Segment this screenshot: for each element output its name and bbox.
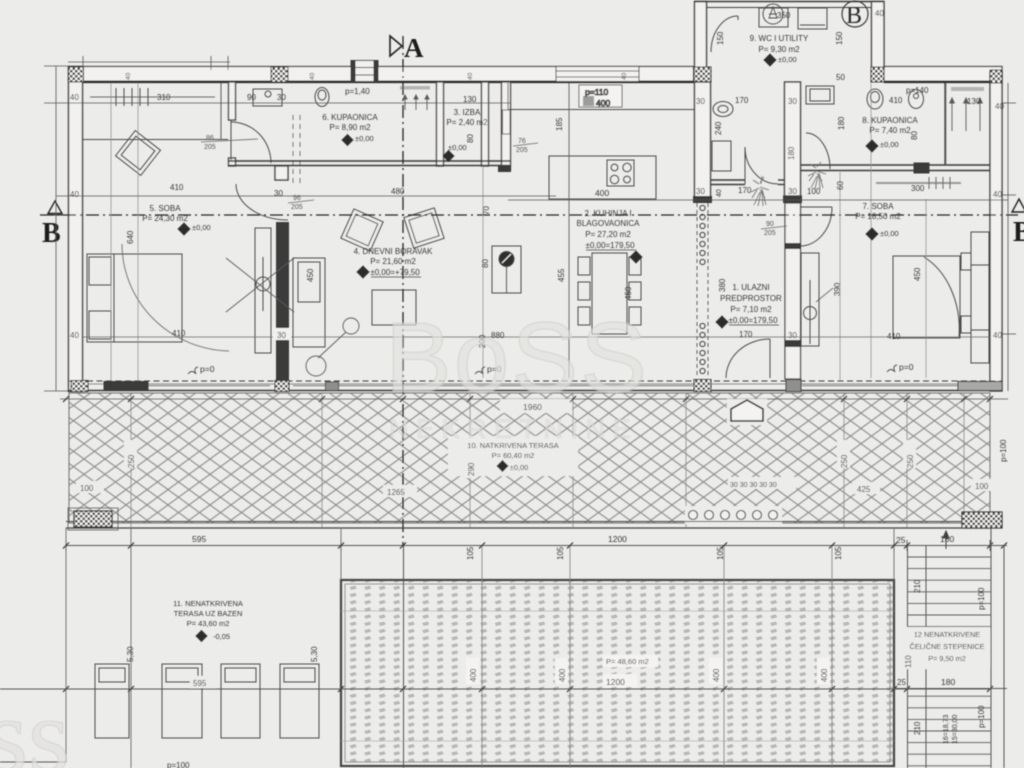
grid line x483 living: [482, 166, 484, 378]
svg-text:100: 100: [807, 187, 821, 196]
svg-text:90: 90: [247, 93, 256, 102]
plot corner lines bottom-left: [0, 761, 66, 763]
radiator arrows vent room right: [946, 83, 984, 165]
bed room7: [893, 232, 989, 363]
entrance arrow symbol on terrace: [727, 399, 767, 425]
svg-text:P= 27,20 m2: P= 27,20 m2: [585, 230, 631, 239]
svg-text:±0,00=179,50: ±0,00=179,50: [728, 316, 778, 325]
svg-text:P= 7,40 m2: P= 7,40 m2: [869, 126, 911, 135]
svg-text:390: 390: [833, 282, 842, 296]
svg-text:±0,00: ±0,00: [448, 143, 467, 152]
svg-text:P= 43,60 m2: P= 43,60 m2: [187, 619, 230, 628]
svg-text:40: 40: [993, 331, 1002, 340]
svg-text:410: 410: [172, 329, 186, 338]
svg-text:100: 100: [975, 482, 989, 491]
closet wall cap: [498, 165, 511, 172]
pier bottom wall mid: [275, 381, 289, 392]
tall cabinet room5 right: [255, 228, 271, 353]
wardrobe strip room5 top: [83, 83, 228, 140]
svg-text:400: 400: [596, 98, 610, 108]
svg-text:205: 205: [516, 147, 528, 154]
svg-text:1200: 1200: [606, 677, 625, 687]
svg-text:40: 40: [993, 190, 1002, 199]
grid line x569 kitchen: [568, 83, 570, 378]
dimension row y199 right: [508, 199, 1008, 201]
svg-text:±0,00=+79,50: ±0,00=+79,50: [370, 268, 420, 277]
watermark BoSS center: [385, 302, 647, 444]
rotated dim texts house: [126, 31, 922, 348]
wall W8 bath8 bottom: [801, 163, 990, 173]
svg-text:40: 40: [467, 72, 474, 80]
dimension row y545: [66, 540, 1007, 551]
svg-text:80: 80: [910, 131, 919, 140]
svg-text:310: 310: [157, 93, 171, 102]
outer wall left: [69, 67, 83, 392]
circle device 350: [763, 4, 783, 24]
svg-text:±0,00: ±0,00: [778, 55, 797, 64]
floor lamp living: [306, 318, 359, 376]
svg-text:30: 30: [788, 331, 797, 340]
wardrobe unit room7: [801, 253, 833, 346]
svg-text:1200: 1200: [608, 534, 627, 544]
svg-text:250: 250: [127, 454, 136, 468]
svg-text:12 NENATKRIVENE: 12 NENATKRIVENE: [914, 630, 980, 639]
wall W5 kitchen right: [694, 82, 712, 203]
svg-text:595: 595: [193, 679, 207, 688]
right dimension line: [1002, 83, 1016, 391]
terrace bottom edge: [66, 522, 990, 529]
svg-text:5. SOBA: 5. SOBA: [149, 204, 181, 213]
svg-text:11. NENATKRIVENA: 11. NENATKRIVENA: [173, 599, 243, 608]
stairs labels: [897, 579, 990, 744]
svg-text:86: 86: [206, 135, 214, 142]
bathroom8 door arc: [806, 133, 830, 169]
svg-text:30 30 30 30 30: 30 30 30 30 30: [730, 482, 777, 489]
svg-text:±0,00: ±0,00: [355, 134, 374, 143]
door post between hall and room5: [275, 166, 288, 180]
dining table: [578, 253, 641, 334]
svg-text:170: 170: [738, 186, 752, 195]
pool internal grid lines: [341, 545, 894, 768]
stair treads: [908, 557, 992, 766]
wall W11 room5/living (solid): [276, 222, 289, 381]
wall room1/room7 lower: [785, 203, 801, 379]
svg-text:30: 30: [696, 97, 705, 106]
svg-text:60: 60: [836, 181, 845, 190]
lounger dims: [126, 646, 319, 768]
svg-text:80: 80: [481, 259, 490, 268]
svg-text:130: 130: [967, 97, 981, 106]
kitchen counter: [508, 83, 694, 110]
dots partition at kitchen/entry: [697, 203, 708, 378]
svg-text:450: 450: [913, 267, 922, 281]
room5 hall door arc: [236, 184, 288, 220]
pier top wall at kitchen: [694, 67, 711, 82]
kitchen island with cooktop: [549, 156, 656, 199]
washbasin WC corridor: [713, 102, 733, 117]
svg-text:30: 30: [274, 189, 283, 198]
window shaft on top wall p=1,40: [351, 61, 378, 82]
pier bottom wall at kitchen: [694, 380, 711, 392]
footpath circles on terrace: [685, 506, 782, 524]
bathroom8 sink: [806, 86, 834, 104]
svg-text:450: 450: [624, 286, 633, 300]
svg-text:P= 18,50 m2: P= 18,50 m2: [855, 212, 901, 221]
WC utility protrusion walls: [694, 2, 884, 68]
svg-text:p=0: p=0: [200, 364, 215, 374]
svg-text:30: 30: [788, 187, 797, 196]
top-left dimension line: [68, 56, 230, 70]
dim texts row y190: [70, 183, 1002, 199]
svg-text:±0,00=179,50: ±0,00=179,50: [585, 241, 635, 250]
section line A vertical: [402, 36, 404, 545]
p=0 labels: [188, 362, 914, 374]
svg-text:105: 105: [556, 546, 565, 560]
svg-text:ČELIČNE STEPENICE: ČELIČNE STEPENICE: [909, 642, 984, 651]
svg-text:80: 80: [466, 134, 475, 143]
svg-text:180: 180: [837, 116, 846, 130]
grid line x138 room5: [137, 83, 139, 381]
svg-text:TERASA UZ BAZEN: TERASA UZ BAZEN: [174, 609, 243, 618]
pier top-left corner: [69, 67, 84, 82]
cabinet in closet: [503, 110, 511, 134]
section marker A top: [390, 33, 424, 63]
stairs block right: [908, 528, 1005, 768]
dimension row y192: [56, 195, 556, 197]
dim texts row y335: [70, 329, 186, 340]
svg-text:p=100: p=100: [999, 439, 1008, 462]
svg-text:±0,00: ±0,00: [880, 140, 899, 149]
appliance boxes WC top: [759, 8, 827, 29]
dim tick marks: [63, 396, 1007, 692]
svg-text:400: 400: [820, 668, 829, 682]
main entrance door arc room1: [726, 339, 770, 378]
svg-text:40: 40: [309, 72, 316, 80]
terrace hatch area: [69, 393, 990, 523]
outer wall top left wing: [68, 67, 694, 82]
svg-text:5,30: 5,30: [310, 646, 319, 662]
svg-text:p=100: p=100: [977, 587, 986, 610]
svg-text:400: 400: [595, 188, 609, 198]
svg-text:400: 400: [558, 668, 567, 682]
bathroom8 bidet: [909, 90, 924, 109]
svg-text:90: 90: [766, 221, 774, 228]
section marker B right edge: [1012, 199, 1024, 248]
svg-text:25: 25: [896, 535, 906, 545]
WC bathroom6: [315, 88, 329, 107]
svg-text:105: 105: [466, 546, 475, 560]
svg-text:380: 380: [718, 278, 727, 292]
outer wall right: [990, 72, 1002, 391]
washer bathroom6: [253, 89, 282, 106]
svg-text:130: 130: [463, 95, 477, 104]
svg-text:180: 180: [787, 146, 796, 160]
svg-text:410: 410: [887, 332, 901, 341]
svg-text:B: B: [1013, 217, 1024, 248]
wall W9 bath8/vent: [944, 83, 946, 165]
svg-text:4. DNEVNI BORAVAK: 4. DNEVNI BORAVAK: [354, 247, 434, 256]
door size labels: [201, 135, 787, 237]
stairs second dim row: [894, 688, 1007, 690]
armchair 1 living: [341, 209, 383, 251]
svg-text:96: 96: [293, 195, 301, 202]
svg-text:±0,00: ±0,00: [192, 223, 211, 232]
svg-text:p=140: p=140: [906, 86, 929, 95]
svg-text:9. WC I UTILITY: 9. WC I UTILITY: [750, 34, 809, 43]
plant planter left of terrace door: [751, 176, 769, 206]
room5 entrance door arc over bed: [122, 244, 229, 351]
svg-text:450: 450: [306, 268, 315, 282]
svg-text:455: 455: [557, 268, 566, 282]
svg-text:±0,00: ±0,00: [880, 229, 899, 238]
svg-text:ss: ss: [0, 677, 70, 768]
left dimension line: [44, 66, 68, 391]
grid line x871 room7: [870, 83, 872, 378]
svg-text:B: B: [42, 218, 61, 249]
WC room door arc top: [711, 16, 738, 52]
svg-text:2. KUHINJA I: 2. KUHINJA I: [584, 209, 631, 218]
corridor door arc: [745, 147, 778, 184]
svg-text:30: 30: [277, 93, 286, 102]
pool basin: [341, 580, 894, 766]
grid line x840 room7: [839, 172, 841, 381]
svg-text:40: 40: [70, 331, 79, 340]
section line B horizontal: [40, 214, 1018, 216]
svg-text:40: 40: [875, 9, 884, 18]
svg-text:640: 640: [126, 230, 135, 244]
svg-text:150: 150: [835, 31, 844, 45]
svg-text:170: 170: [739, 330, 753, 339]
wall W7 corridor bottom: [711, 180, 785, 185]
bed room5: [87, 254, 182, 342]
svg-text:40: 40: [995, 102, 1004, 111]
door projection dashes room5: [293, 115, 300, 183]
svg-text:480: 480: [391, 187, 405, 196]
wall W3b closet wall: [502, 82, 511, 170]
svg-text:P= 7,10 m2: P= 7,10 m2: [730, 305, 772, 314]
pool labels: [466, 655, 830, 687]
svg-text:p=0: p=0: [899, 362, 914, 372]
svg-text:6. KUPAONICA: 6. KUPAONICA: [322, 113, 378, 122]
svg-text:40: 40: [716, 189, 723, 197]
svg-text:A: A: [404, 33, 424, 63]
wall W1 bathroom6 left: [229, 82, 236, 166]
pier top wall at entry: [871, 67, 884, 82]
svg-text:1. ULAZNI: 1. ULAZNI: [732, 283, 769, 292]
pier bottom-left corner: [71, 381, 88, 392]
radiator under room7 window: [876, 177, 961, 189]
pier top-right corner: [990, 70, 1002, 83]
svg-text:BoSS: BoSS: [385, 302, 647, 414]
svg-text:250: 250: [906, 454, 915, 468]
svg-text:p=100: p=100: [167, 761, 190, 768]
terrace rotated dims: [76, 439, 1008, 497]
wall W6 corridor right: [784, 82, 802, 203]
svg-text:40: 40: [70, 93, 79, 102]
svg-text:76: 76: [518, 138, 526, 145]
section marker B left: [42, 201, 66, 249]
pier bottom wall at entry (grey): [786, 380, 801, 392]
terrace dimension line y399: [60, 398, 1008, 400]
svg-text:300: 300: [911, 184, 925, 193]
radiator arrows bathroom6: [400, 86, 430, 110]
svg-text:P= 48,60 m2: P= 48,60 m2: [606, 657, 649, 666]
svg-text:210: 210: [913, 721, 922, 735]
svg-text:P= 24,30 m2: P= 24,30 m2: [142, 214, 188, 223]
svg-text:410: 410: [170, 183, 184, 192]
svg-text:16=18,73: 16=18,73: [943, 715, 950, 744]
svg-text:30: 30: [696, 187, 705, 196]
wall W3 izba right: [482, 82, 489, 166]
svg-text:40: 40: [621, 72, 628, 80]
svg-text:50: 50: [836, 73, 845, 82]
svg-text:170: 170: [735, 96, 749, 105]
svg-text:30: 30: [277, 331, 286, 340]
svg-text:70: 70: [482, 206, 491, 215]
svg-text:240: 240: [714, 121, 723, 135]
svg-text:105: 105: [834, 546, 843, 560]
door room7 from hall: [800, 207, 832, 246]
bottom wall with windows: [68, 381, 1002, 391]
pier top wall mid: [271, 67, 288, 82]
svg-text:p=1,40: p=1,40: [345, 87, 370, 96]
bathroom6 door arc: [231, 120, 271, 163]
armchair room5 top: [116, 131, 161, 176]
svg-text:8. KUPAONICA: 8. KUPAONICA: [862, 116, 918, 125]
svg-text:p=100: p=100: [977, 705, 986, 728]
terrace label 1960: [500, 399, 572, 413]
svg-text:185: 185: [555, 117, 564, 131]
svg-text:P= 21,60 m2: P= 21,60 m2: [370, 257, 416, 266]
sun loungers: [95, 664, 319, 738]
room labels: [142, 34, 918, 325]
svg-text:350: 350: [777, 11, 791, 20]
terrace left end pier: [74, 511, 112, 527]
dimension row y330: [83, 336, 990, 338]
vertical plot lines lower area: [66, 528, 894, 768]
lounger terrace label: [173, 599, 243, 642]
svg-text:205: 205: [291, 204, 303, 211]
svg-text:100: 100: [80, 484, 94, 493]
svg-text:3. IZBA: 3. IZBA: [454, 108, 481, 117]
svg-text:1265: 1265: [387, 488, 405, 497]
wardrobe X room5: [226, 258, 294, 312]
svg-text:250: 250: [840, 454, 849, 468]
svg-text:7. SOBA: 7. SOBA: [862, 202, 894, 211]
svg-text:P= 9,30 m2: P= 9,30 m2: [758, 45, 800, 54]
svg-text:P= 60,40 m2: P= 60,40 m2: [492, 451, 535, 460]
svg-text:25: 25: [897, 678, 906, 687]
wall W2 bath6/izba: [437, 82, 444, 166]
level markers (diamond symbols): [178, 54, 899, 328]
circle B top: [842, 1, 868, 29]
svg-text:425: 425: [857, 485, 871, 494]
coffee table living: [372, 290, 416, 325]
grid line x111 room5: [110, 83, 112, 381]
svg-text:205: 205: [204, 144, 216, 151]
long dimension line y689: [0, 688, 990, 690]
terrace right end pier: [962, 512, 1002, 528]
utility cabinet in WC corridor: [712, 141, 731, 171]
fireplace stove: [492, 246, 521, 293]
wall W4 bath6 bottom: [228, 161, 511, 166]
grid lines through terrace: [131, 393, 964, 528]
svg-text:BLAGOVAONICA: BLAGOVAONICA: [577, 219, 641, 228]
dimension row y103: [68, 102, 511, 104]
grid line x926 room7: [925, 199, 927, 378]
svg-text:110: 110: [904, 655, 913, 668]
svg-text:150: 150: [716, 31, 725, 45]
svg-text:595: 595: [192, 534, 206, 544]
terrace room label: [448, 436, 578, 476]
dim texts top rows: [70, 9, 1004, 111]
svg-text:30: 30: [788, 97, 797, 106]
bathroom8 WC: [867, 89, 883, 109]
svg-text:180: 180: [941, 677, 955, 687]
plant planter right: [808, 162, 826, 189]
armchair 2 living: [404, 208, 444, 248]
svg-text:210: 210: [913, 579, 922, 593]
svg-text:400: 400: [712, 668, 721, 682]
svg-text:40: 40: [125, 72, 132, 80]
svg-text:PREDPROSTOR: PREDPROSTOR: [720, 294, 782, 303]
stairs direction arrow: [943, 531, 949, 549]
sofa living room: [293, 258, 325, 347]
svg-text:-0,05: -0,05: [213, 632, 230, 641]
svg-text:P= 8,90 m2: P= 8,90 m2: [329, 123, 371, 132]
svg-text:290: 290: [467, 462, 476, 476]
svg-text:410: 410: [889, 96, 903, 105]
svg-text:40: 40: [70, 190, 79, 199]
svg-text:P= 2,40 m2: P= 2,40 m2: [446, 118, 488, 127]
svg-text:P= 9,50 m2: P= 9,50 m2: [928, 654, 966, 663]
svg-text:400: 400: [469, 668, 478, 682]
svg-text:205: 205: [764, 230, 776, 237]
svg-text:p=110: p=110: [585, 87, 609, 97]
svg-text:15=30,00: 15=30,00: [952, 715, 959, 744]
svg-text:NEKRETNINE: NEKRETNINE: [389, 414, 638, 444]
kitchen window on top wall: [556, 67, 639, 82]
svg-text:B: B: [846, 3, 862, 29]
svg-text:±0,00: ±0,00: [510, 463, 529, 472]
svg-text:5,30: 5,30: [126, 646, 135, 662]
outer wall top right wing: [884, 67, 1002, 82]
